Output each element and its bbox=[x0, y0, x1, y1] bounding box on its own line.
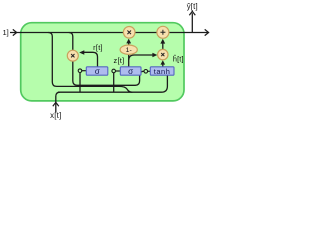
arrowhead chevron y[t] up bbox=[189, 11, 195, 15]
svg-text:σ: σ bbox=[128, 67, 133, 76]
sigma gate z block bbox=[120, 67, 141, 76]
wire riser to sigma r port bbox=[79, 73, 81, 93]
arrowhead r into reset multiply bbox=[79, 50, 84, 55]
svg-text:1]: 1] bbox=[2, 28, 8, 37]
multiply node z times h-hat bbox=[158, 49, 168, 59]
wire drop from h line into reset multiply bbox=[69, 33, 73, 51]
port stub sigma r bbox=[82, 70, 151, 73]
svg-text:tanh: tanh bbox=[154, 67, 171, 76]
svg-text:ŷ[t]: ŷ[t] bbox=[187, 2, 198, 11]
arrowhead z into z-h multiply bbox=[152, 53, 157, 58]
arrowhead z-h into plus bbox=[160, 39, 165, 44]
arrowhead chevron h[t] out right bbox=[205, 29, 209, 35]
wire tanh output up to z-h multiply bbox=[162, 63, 164, 66]
arrowhead chevron h[t-1] into cell bbox=[13, 11, 209, 106]
wire r[t] feedback from sigma r to reset multiply bbox=[84, 52, 98, 67]
arrowhead one-minus-z into top multiply bbox=[126, 39, 131, 44]
svg-text:r[t]: r[t] bbox=[93, 43, 103, 52]
port circle sigma z input bbox=[112, 69, 116, 73]
wire branch down from h line to lower bus bbox=[48, 33, 132, 93]
port circle tanh input bbox=[144, 70, 148, 74]
one-minus ellipse bbox=[120, 45, 137, 54]
svg-text:ĥ[t]: ĥ[t] bbox=[173, 55, 184, 64]
wire z branch to z-h multiply bbox=[129, 55, 153, 60]
port stub sigma z bbox=[116, 70, 121, 72]
wire x[t] input riser bbox=[56, 92, 60, 112]
wire reset product to tanh port bbox=[73, 61, 144, 85]
svg-text:z[t]: z[t] bbox=[114, 56, 125, 65]
svg-text:1-: 1- bbox=[126, 47, 132, 54]
port circle sigma r input bbox=[78, 69, 147, 73]
svg-text:x[t]: x[t] bbox=[50, 111, 61, 120]
tanh block bbox=[150, 67, 174, 76]
port stub tanh bbox=[148, 70, 151, 72]
svg-text:σ: σ bbox=[95, 67, 100, 76]
plus node bbox=[157, 26, 169, 38]
wire h[t-1] top line bbox=[10, 32, 209, 34]
wire riser to sigma z port bbox=[113, 73, 115, 92]
arrowhead chevron x[t] up bbox=[53, 102, 59, 106]
wire z-h multiply up to plus bbox=[162, 43, 164, 50]
sigma gate r block bbox=[86, 67, 108, 76]
GRU cell body bbox=[21, 23, 184, 101]
wire y[t] branch up bbox=[191, 13, 193, 32]
multiply node reset bbox=[67, 50, 78, 61]
arrowhead h-hat into z-h multiply bbox=[161, 60, 166, 64]
wire z riser sigma z to one-minus bbox=[128, 54, 130, 66]
wire x bus to tanh bottom bbox=[58, 75, 167, 92]
multiply node one-minus-z times h bbox=[123, 27, 135, 39]
wire one-minus up to top multiply bbox=[128, 41, 130, 45]
